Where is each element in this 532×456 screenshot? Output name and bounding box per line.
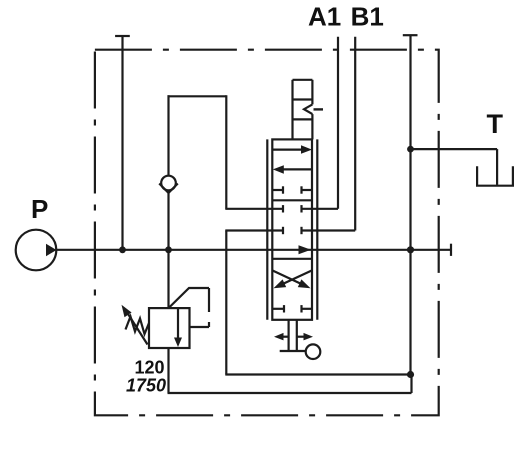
wire: check valve riser — [167, 190, 169, 249]
node: bottom junction dot — [407, 371, 414, 378]
wire: loop down to valve A-side — [225, 95, 227, 209]
node: T junction dot — [407, 146, 414, 153]
relief valve RV1: body — [149, 308, 190, 348]
node: P line crossing dot — [407, 246, 414, 253]
relief valve RV1: feed from P line — [167, 250, 169, 308]
wire: main P line — [56, 249, 451, 251]
position 3: blocked stubs — [272, 308, 284, 310]
lever double arrow right — [297, 336, 305, 338]
wire: work port A right branch to A1 — [302, 208, 339, 210]
divider position 2/3 — [272, 258, 312, 260]
svg-text:P: P — [31, 194, 48, 224]
relief valve RV1: pilot line — [169, 288, 210, 308]
relief valve RV1: adjustment arrow — [127, 312, 148, 344]
stack divider 1 — [293, 98, 313, 100]
node: junction dot P line / relief branch — [165, 246, 172, 253]
position 1: blocked stubs — [272, 189, 283, 191]
wire: check valve to loop top — [167, 95, 169, 175]
position 1: arrow B to T — [283, 168, 312, 170]
stem end bar — [280, 350, 306, 352]
stack divider 2 — [293, 118, 313, 120]
relief valve RV1: spring — [126, 317, 150, 335]
wire: work port B left branch — [225, 229, 283, 231]
wire: work port A left branch — [225, 208, 283, 210]
wire: to tank T — [411, 148, 498, 150]
lever double arrow left — [281, 336, 289, 338]
directional valve DV1 : outer rail right — [316, 139, 318, 319]
directional valve DV1 : outer rail left — [266, 139, 268, 319]
wire: bottom tank run — [225, 373, 410, 375]
enclosure dash-dot border — [95, 50, 439, 416]
node: junction dot on P line — [119, 246, 126, 253]
pump flow triangle — [46, 244, 57, 256]
svg-text:T: T — [487, 109, 504, 139]
svg-text:1750: 1750 — [126, 376, 166, 396]
check valve CV1 — [161, 176, 176, 191]
svg-text:B1: B1 — [351, 2, 384, 32]
position 2: arrow on P line — [299, 245, 312, 254]
wire: B branch down leg — [225, 231, 227, 375]
measuring point X (vertical with cap) — [121, 36, 123, 250]
detent notch — [304, 104, 312, 114]
directional valve DV1 : envelope — [272, 139, 312, 319]
tank symbol — [477, 166, 513, 185]
pump P (circle) — [16, 230, 57, 271]
relief valve RV1: flow arrow — [177, 309, 179, 339]
plugged port cap on P line — [450, 244, 452, 256]
position 3: crossed arrows — [272, 270, 303, 284]
check valve seat — [159, 184, 178, 193]
detent dash — [314, 108, 324, 110]
wire: loop top horizontal — [168, 95, 227, 97]
position 1: arrow P to A — [272, 149, 302, 151]
measuring point on T riser (cap) — [403, 34, 418, 36]
wire: B1 riser — [354, 37, 356, 231]
divider position 1/2 — [272, 199, 312, 201]
svg-text:120: 120 — [134, 358, 164, 378]
wire: T riser — [409, 35, 411, 374]
kickout roller circle — [306, 344, 321, 359]
wire: work port B right branch to B1 — [302, 229, 356, 231]
svg-text:A1: A1 — [308, 2, 341, 32]
spool stem (double line) — [288, 320, 290, 351]
pilot stack box — [293, 79, 313, 81]
relief valve RV1: outlet to tank — [167, 348, 169, 393]
wire: A1 riser — [337, 37, 339, 209]
